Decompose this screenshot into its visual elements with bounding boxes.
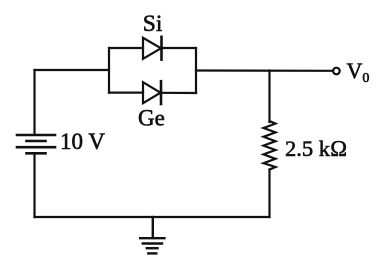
wire bottom branch right: [161, 92, 196, 94]
wire top branch left: [109, 47, 143, 49]
wire output horizontal: [196, 69, 332, 72]
node A: diode box left vertical: [108, 48, 110, 93]
wire top-left horizontal: [35, 69, 110, 71]
wire left vertical lower: [33, 155, 35, 218]
svg-text:10 V: 10 V: [60, 129, 105, 154]
wire resistor top: [268, 71, 270, 123]
wire bottom horizontal: [35, 216, 270, 218]
wire left vertical upper: [33, 70, 35, 134]
battery B1 10 V: [17, 135, 55, 153]
svg-text:Ge: Ge: [138, 106, 165, 131]
diode D2 Ge: [143, 81, 161, 104]
wire bottom branch left: [109, 91, 143, 93]
ground: [140, 217, 164, 253]
wire resistor bottom: [268, 170, 270, 218]
terminal Vo open circle: [333, 68, 340, 75]
resistor R1 2.5 kOhm: [264, 121, 276, 170]
svg-text:Si: Si: [143, 11, 163, 37]
wire top branch right: [162, 47, 197, 49]
svg-text:2.5 kΩ: 2.5 kΩ: [285, 136, 347, 161]
diode D1 Si: [143, 37, 162, 60]
node B: diode box right vertical: [195, 48, 197, 93]
